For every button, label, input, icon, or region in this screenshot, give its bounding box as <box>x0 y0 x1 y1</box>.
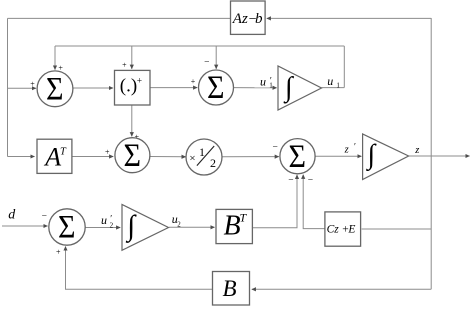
wire: input d into summing junction S5 <box>2 225 48 227</box>
wire: u1 feedback top horizontal <box>55 45 344 47</box>
svg-text:′: ′ <box>354 141 356 151</box>
svg-text:+: + <box>105 148 110 157</box>
wire: feedback drop into S1 top <box>54 46 56 70</box>
wire: into Az-b block right side <box>267 17 431 19</box>
wire: I3 output into B^T <box>169 226 215 228</box>
wire: branch into summing junction S1 <box>8 87 36 89</box>
svg-text:×: × <box>189 153 195 165</box>
wire: S4 output to integrator I2 <box>315 155 361 157</box>
gain block x1/2 <box>186 139 222 175</box>
wire: S5 output to integrator I3 <box>85 227 120 229</box>
svg-text:2: 2 <box>210 156 216 170</box>
svg-text:u: u <box>327 74 333 88</box>
svg-text:B: B <box>223 276 237 301</box>
wire: Cz+E output left then up into S4 bottom <box>303 175 325 229</box>
svg-text:B: B <box>224 211 241 242</box>
svg-text:d: d <box>8 207 16 222</box>
integrator I3 <box>122 205 169 251</box>
node: label z' <box>344 141 356 155</box>
block Az-b <box>231 1 266 34</box>
svg-text:z: z <box>344 145 349 156</box>
integrator I2 <box>363 134 409 180</box>
wire: B output left then up into S5 bottom <box>66 247 213 290</box>
wire: right rail vertical from Az-b down to B <box>430 18 432 289</box>
svg-text:E: E <box>347 223 355 235</box>
node: label u'2 <box>101 213 114 230</box>
wire: gain 1/2 output to summing junction S4 <box>222 156 279 158</box>
wire: A^T output into S3 <box>72 156 114 158</box>
svg-text:2: 2 <box>177 221 181 229</box>
summing junction S1 <box>37 71 73 107</box>
wire: B^T output right then up into S4 bottom <box>252 175 297 228</box>
block A^T <box>37 139 72 173</box>
wire: I1 output stub <box>322 87 345 89</box>
node: label u'1 <box>260 75 273 90</box>
svg-text:Σ: Σ <box>123 138 141 174</box>
wire: (.)^+ bottom output into S3 <box>131 105 133 136</box>
svg-text:Az: Az <box>232 11 248 27</box>
svg-text:′: ′ <box>110 214 112 224</box>
svg-text:u: u <box>101 213 107 227</box>
svg-text:+: + <box>30 79 35 88</box>
svg-text:Cz: Cz <box>327 223 340 235</box>
block (.)^+ <box>115 70 151 105</box>
wire: (.)^+ output to summing junction S2 <box>150 87 197 89</box>
svg-text:Σ: Σ <box>289 139 307 175</box>
wire: u1 feedback rise <box>343 46 345 88</box>
svg-text:1: 1 <box>336 82 340 90</box>
svg-text:−: − <box>288 175 293 185</box>
svg-text:+: + <box>191 77 196 86</box>
wire: into block A^T <box>8 156 35 158</box>
svg-text:Σ: Σ <box>58 210 76 246</box>
svg-text:A: A <box>43 143 61 172</box>
svg-text:Σ: Σ <box>207 70 225 106</box>
svg-text:(.): (.) <box>120 76 137 97</box>
svg-text:+: + <box>122 60 127 69</box>
wire: Az-b output left to left rail <box>8 17 232 19</box>
summing junction S4 <box>280 139 315 175</box>
block B^T <box>216 209 252 243</box>
node: label u2 <box>172 212 182 229</box>
wire: feedback drop into (.)^+ top <box>131 46 133 69</box>
summing junction S3 <box>115 138 150 174</box>
svg-text:−: − <box>204 58 209 68</box>
svg-text:z: z <box>414 145 419 156</box>
block Cz+E <box>325 212 361 246</box>
svg-text:′: ′ <box>270 75 272 85</box>
wire: right rail to Cz+E block <box>362 228 432 230</box>
integrator I1 <box>278 66 322 110</box>
block B <box>213 272 250 306</box>
wire: S2 output to integrator I1 <box>234 87 277 89</box>
svg-text:−: − <box>273 142 278 152</box>
node: label u1 <box>327 74 340 90</box>
wire: feedback drop into S2 top <box>215 46 217 69</box>
wire: left rail vertical <box>7 18 9 156</box>
wire: right rail into B block <box>252 288 431 290</box>
svg-text:+: + <box>137 77 142 87</box>
svg-text:Σ: Σ <box>46 71 64 107</box>
svg-text:+: + <box>56 248 61 257</box>
svg-text:−: − <box>308 175 313 185</box>
wire: I2 output to right edge <box>409 155 470 157</box>
wire: S1 output to (.)^+ block <box>73 87 113 89</box>
svg-text:−: − <box>42 212 47 222</box>
summing junction S2 <box>199 70 234 106</box>
summing junction S5 <box>49 209 85 246</box>
svg-text:u: u <box>260 75 266 89</box>
wire: S3 output to gain 1/2 <box>150 156 186 158</box>
svg-text:b: b <box>255 11 263 27</box>
